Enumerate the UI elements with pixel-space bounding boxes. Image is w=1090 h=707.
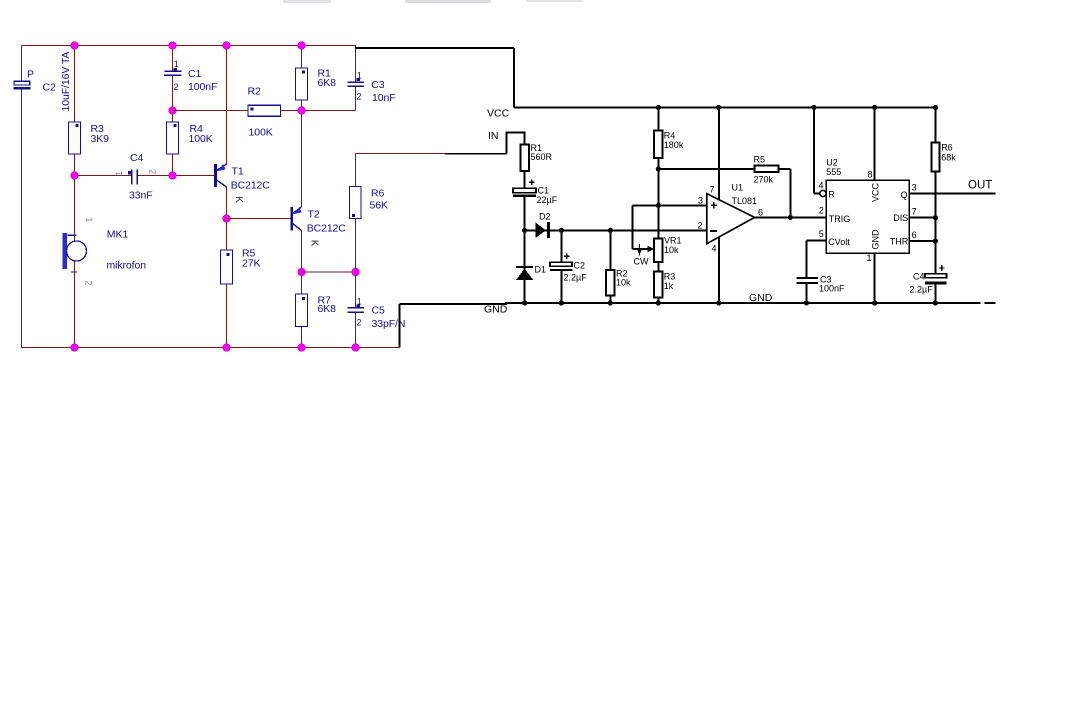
wire R6 column (934, 108, 936, 304)
label R2 100K (248, 86, 273, 139)
label C4 pins (114, 169, 158, 176)
label C5 33pF (372, 305, 406, 331)
svg-text:C5: C5 (372, 305, 385, 317)
capacitor C1 22uF (513, 180, 536, 196)
svg-text:R6: R6 (371, 188, 384, 200)
junction dot R4 top (169, 107, 177, 115)
label R4 180k (664, 131, 684, 151)
junction dot T1 bottom (223, 215, 231, 223)
transistor T2 (292, 207, 302, 231)
label T2 BC212C (307, 209, 347, 235)
label VR1 10k (664, 236, 682, 256)
svg-text:D1: D1 (535, 265, 547, 275)
svg-text:3: 3 (912, 183, 917, 193)
svg-text:555: 555 (826, 167, 841, 177)
junction dot bottom R5 (223, 344, 231, 352)
svg-text:100nF: 100nF (188, 81, 217, 93)
svg-text:2: 2 (174, 82, 179, 92)
label U1 TL081 (732, 183, 758, 207)
svg-text:270k: 270k (754, 175, 774, 185)
junction dot pin7 vcc (716, 105, 721, 110)
svg-text:VR1: VR1 (664, 236, 682, 246)
wire pin4 reset branch (814, 108, 820, 194)
IC U2 555 box (826, 180, 909, 253)
capacitor C5 (348, 305, 364, 313)
junction dot op-amp plus (656, 203, 661, 208)
diode D1 (516, 267, 533, 280)
node base row wire (75, 175, 216, 177)
svg-text:OUT: OUT (968, 179, 992, 191)
svg-text:MK1: MK1 (107, 228, 129, 240)
label R1 560R (531, 143, 553, 162)
resistor R5 (221, 250, 233, 284)
resistor R1 560R (521, 144, 529, 171)
resistor R5 270k (755, 165, 779, 172)
label R5 270k (754, 155, 774, 185)
svg-text:33nF: 33nF (129, 190, 153, 202)
label R3 3K9 (91, 123, 110, 145)
label C2 2.2uF (564, 261, 588, 283)
svg-text:2: 2 (148, 169, 158, 174)
label R6 68k (941, 143, 956, 163)
svg-text:4: 4 (712, 244, 717, 254)
wire VR1 to R3 (657, 263, 659, 272)
svg-text:C1: C1 (188, 68, 201, 80)
label pin 5 CVolt (819, 229, 850, 247)
wire pin8 (874, 108, 876, 181)
svg-text:100K: 100K (189, 133, 213, 145)
label C3 pins (357, 70, 362, 101)
svg-text:C4: C4 (130, 152, 143, 164)
resistor R3 1k (654, 272, 662, 298)
resistor R4 180k (654, 131, 662, 158)
wire R6 column (355, 154, 357, 348)
svg-text:GND: GND (871, 229, 881, 250)
wire VCC top rail (514, 107, 935, 109)
junction dot C4 gnd (933, 300, 938, 305)
svg-text:K: K (233, 196, 244, 203)
resistor R1 (296, 68, 308, 100)
label C1 pins (174, 59, 179, 92)
junction dot C2 top (559, 228, 564, 233)
svg-text:1: 1 (867, 253, 872, 263)
wire IN row black part (445, 153, 507, 155)
junction dot pin4 gnd (716, 300, 721, 305)
wire THR row (909, 240, 935, 242)
junction dot C3 gnd (804, 300, 809, 305)
wire VCC feed (355, 48, 514, 108)
svg-text:7: 7 (912, 207, 917, 217)
label MK1 mikrofon (107, 228, 147, 271)
junction dot R4 bottom (656, 166, 661, 171)
label C3 10nF (371, 79, 395, 104)
label C3 100nF (819, 275, 845, 294)
junction dot output R5 (788, 215, 793, 220)
svg-text:GND: GND (749, 292, 773, 304)
svg-text:CW: CW (634, 256, 649, 266)
microphone MK1 (63, 233, 87, 272)
label R6 56K (370, 188, 388, 212)
label R7 6K8 (318, 295, 337, 315)
transistor T1 (216, 164, 227, 187)
svg-text:10uF/16V TA: 10uF/16V TA (60, 52, 72, 112)
wire R2 column (609, 230, 611, 303)
capacitor C1 (164, 68, 181, 75)
capacitor C4 (128, 169, 138, 184)
label pin 2 TRIG (819, 206, 851, 224)
svg-text:2.2µF: 2.2µF (564, 272, 588, 282)
wire GND rail (400, 303, 996, 348)
wire minus row (525, 229, 707, 231)
label C5 pins (357, 296, 362, 327)
junction dot mic top rail (71, 42, 79, 50)
wire bottom rail (22, 347, 400, 349)
svg-text:IN: IN (488, 130, 499, 142)
resistor R6 56K (350, 187, 362, 219)
svg-text:6: 6 (758, 208, 763, 218)
svg-text:100K: 100K (249, 127, 273, 139)
label R5 27K (242, 248, 260, 270)
junction dot R6 vcc (933, 105, 938, 110)
svg-text:56K: 56K (370, 200, 388, 212)
junction dot DIS (933, 215, 938, 220)
resistor R7 (296, 294, 308, 327)
svg-text:P: P (27, 69, 34, 81)
wire pin4 (718, 237, 720, 303)
svg-text:THR: THR (890, 237, 909, 247)
svg-text:100nF: 100nF (819, 283, 845, 293)
svg-text:6K8: 6K8 (318, 77, 337, 89)
junction dot mic/base (71, 172, 79, 180)
resistor R4 (167, 122, 179, 154)
svg-text:GND: GND (484, 304, 508, 316)
wire top rail (22, 45, 357, 47)
wire T2 base row (227, 218, 292, 220)
svg-text:T2: T2 (308, 209, 320, 221)
junction dot top C1 (169, 42, 177, 50)
svg-text:2: 2 (357, 318, 362, 328)
svg-text:10k: 10k (664, 245, 679, 255)
svg-text:R: R (828, 189, 835, 199)
pin 4 inversion bubble (820, 190, 826, 196)
svg-text:C3: C3 (371, 79, 384, 91)
label C4 2.2uF (910, 271, 934, 294)
svg-text:180k: 180k (664, 140, 684, 150)
wire C1/R4 column (172, 46, 174, 176)
capacitor C4 2.2uF (925, 265, 947, 283)
label C4 33nF (129, 152, 153, 202)
svg-text:6K8: 6K8 (318, 303, 337, 315)
capacitor C2 2.2uF (550, 254, 573, 270)
svg-text:560R: 560R (531, 152, 553, 162)
junction dot R1 bottom (298, 107, 306, 115)
wire R1/R7 column (301, 46, 303, 348)
svg-text:1: 1 (114, 171, 124, 176)
label R2 10k (616, 269, 631, 288)
svg-text:3K9: 3K9 (91, 133, 110, 145)
label C1 100nF (188, 68, 217, 93)
svg-text:1: 1 (357, 296, 362, 306)
capacitor C3 100nF (796, 278, 818, 283)
svg-text:Q: Q (901, 190, 908, 200)
junction dot pin8 vcc (872, 105, 877, 110)
wire left rail (21, 46, 23, 348)
junction dot THR (933, 238, 938, 243)
junction dot R1 top (298, 42, 306, 50)
junction dot R3 bottom (656, 300, 661, 305)
svg-text:7: 7 (710, 185, 715, 195)
junction dot C5 top (352, 268, 360, 276)
svg-text:27K: 27K (242, 258, 260, 270)
title remnant marks (283, 0, 582, 3)
svg-text:6: 6 (912, 230, 917, 240)
junction dot C2 bottom (559, 300, 564, 305)
svg-text:68k: 68k (941, 153, 956, 163)
junction dot bottom mic (71, 344, 79, 352)
svg-text:R6: R6 (941, 143, 953, 153)
label mic pins (84, 217, 94, 285)
svg-text:CVolt: CVolt (828, 237, 850, 247)
label R4 100K (189, 123, 213, 145)
potentiometer VR1 (654, 238, 662, 262)
svg-text:U1: U1 (732, 183, 744, 193)
wire R5 row (658, 169, 790, 218)
svg-text:D2: D2 (539, 212, 551, 222)
svg-text:8: 8 (868, 170, 873, 180)
resistor R2 10k (606, 270, 614, 296)
svg-text:2: 2 (819, 206, 824, 216)
junction dot D2 anode (522, 228, 527, 233)
svg-text:K: K (309, 240, 320, 247)
wire R4 column (657, 108, 659, 239)
label C1 22uF (537, 186, 558, 205)
svg-text:2: 2 (698, 221, 703, 231)
wire R2 row (173, 110, 356, 112)
wire C1 to GND column (524, 196, 526, 303)
resistor R6 68k (931, 143, 939, 172)
potentiometer VR1 wiper arrow (637, 244, 654, 256)
svg-text:mikrofon: mikrofon (107, 260, 147, 272)
label R1 6K8 (318, 68, 337, 90)
svg-text:BC212C: BC212C (307, 223, 347, 235)
capacitor C3 (348, 78, 364, 86)
junction dot bottom C5 (352, 344, 360, 352)
op-amp minus symbol (710, 230, 717, 232)
svg-text:T1: T1 (232, 166, 244, 178)
svg-text:VCC: VCC (871, 182, 881, 202)
label U2 555 (826, 158, 841, 178)
svg-text:2: 2 (84, 280, 94, 285)
wire CVolt (807, 241, 827, 304)
svg-text:1k: 1k (664, 281, 674, 291)
wire Q output row (909, 193, 995, 195)
svg-text:1: 1 (84, 217, 94, 222)
wire C3 column (355, 46, 357, 111)
wire C2 column (560, 230, 562, 303)
wire IN jog (507, 133, 525, 154)
svg-text:1: 1 (174, 59, 179, 69)
label pin 3 Q (901, 183, 917, 200)
label pin 7 DIS (893, 207, 916, 224)
svg-text:TRIG: TRIG (829, 214, 851, 224)
wire DIS row (909, 217, 935, 219)
op-amp U1 (707, 194, 755, 244)
junction dot T2 emitter (298, 268, 306, 276)
svg-text:5: 5 (819, 229, 824, 239)
svg-text:DIS: DIS (893, 213, 908, 223)
junction dot D1 bottom (522, 300, 527, 305)
junction dot bottom R7 (298, 344, 306, 352)
junction dot R4 vcc (656, 105, 661, 110)
wire wiper branch (632, 205, 648, 249)
wire emitter row (302, 271, 356, 273)
svg-text:R2: R2 (248, 86, 261, 98)
wire pin1 (874, 253, 876, 303)
resistor R3 (69, 122, 81, 154)
junction dot base T1 (169, 172, 177, 180)
svg-text:4: 4 (819, 181, 824, 191)
svg-text:BC212C: BC212C (231, 180, 271, 192)
op-amp plus symbol (711, 202, 717, 208)
svg-text:10k: 10k (616, 278, 631, 288)
svg-text:3: 3 (698, 196, 703, 206)
junction dot reset vcc (811, 105, 816, 110)
wire pin7 (718, 108, 720, 200)
svg-text:VCC: VCC (487, 108, 510, 120)
wire mic column (74, 46, 76, 348)
wire IN row maroon part (356, 153, 446, 155)
svg-text:R3: R3 (664, 272, 676, 282)
svg-text:1: 1 (357, 70, 362, 80)
resistor R2 (248, 105, 281, 116)
junction dot pin1 gnd (872, 300, 877, 305)
wire plus row (632, 204, 706, 206)
label pin 4 R (819, 181, 836, 200)
wire R1 to C1 (524, 171, 526, 188)
label pin 6 THR (890, 230, 917, 247)
svg-text:22µF: 22µF (537, 195, 558, 205)
svg-text:2.2µF: 2.2µF (910, 285, 934, 295)
svg-text:C2: C2 (43, 82, 56, 94)
capacitor C2 (P) (13, 81, 30, 88)
svg-text:TL081: TL081 (732, 196, 758, 206)
svg-text:C4: C4 (913, 271, 925, 281)
wire op-amp output (755, 216, 827, 218)
diode D2 (535, 222, 550, 238)
svg-text:C2: C2 (574, 261, 586, 271)
svg-text:R4: R4 (664, 131, 676, 141)
svg-text:U2: U2 (826, 158, 838, 168)
junction dot T1 top (223, 42, 231, 50)
wire T1 column (226, 46, 228, 348)
svg-text:10nF: 10nF (372, 92, 396, 104)
svg-text:2: 2 (357, 92, 362, 102)
junction dot R2 bottom (608, 300, 613, 305)
junction dot R2 top (608, 228, 613, 233)
wire R3 bottom (657, 297, 659, 303)
wire TRIG (790, 216, 826, 218)
label R3 1k (664, 272, 676, 292)
label T1 BC212C (231, 166, 271, 192)
svg-text:R5: R5 (754, 155, 766, 165)
